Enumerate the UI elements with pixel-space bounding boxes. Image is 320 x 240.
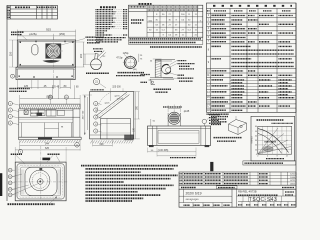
front view xyxy=(16,37,76,80)
rear view xyxy=(148,105,222,158)
svg-text:544: 544 xyxy=(45,143,50,146)
svg-text:200: 200 xyxy=(79,53,83,58)
revision history rows xyxy=(179,172,296,186)
svg-text:925: 925 xyxy=(46,27,51,31)
svg-text:30: 30 xyxy=(255,140,257,142)
svg-text:φ125φ: φ125φ xyxy=(29,32,37,36)
performance chart xyxy=(251,116,295,161)
svg-text:47.5φ: 47.5φ xyxy=(116,57,123,60)
svg-text:125φ: 125φ xyxy=(123,52,129,55)
exhaust adapter section detail xyxy=(141,59,195,92)
chart legend box xyxy=(243,161,296,165)
svg-text:50: 50 xyxy=(255,131,257,133)
svg-text:φ125: φ125 xyxy=(105,103,111,105)
svg-text:400~750: 400~750 xyxy=(83,110,85,119)
svg-text:8: 8 xyxy=(277,156,278,158)
svg-text:10/04: 10/04 xyxy=(290,177,296,179)
svg-text:2020/ 6/19: 2020/ 6/19 xyxy=(186,191,202,195)
bottom view xyxy=(8,143,80,205)
parts list table xyxy=(207,3,297,114)
svg-text:600: 600 xyxy=(100,143,105,146)
svg-text:φ125: φ125 xyxy=(184,110,190,113)
scan artifact bar xyxy=(0,173,2,196)
svg-text:625: 625 xyxy=(45,147,50,150)
svg-text:(250): (250) xyxy=(59,32,65,36)
svg-text:12: 12 xyxy=(286,156,288,158)
svg-text:12/10: 12/10 xyxy=(290,174,296,176)
svg-text:45°: 45° xyxy=(102,56,105,58)
notes xyxy=(81,166,178,201)
svg-text:φ170: φ170 xyxy=(114,95,120,98)
svg-text:4: 4 xyxy=(267,156,268,158)
svg-text:40: 40 xyxy=(255,135,257,137)
front view dimensions xyxy=(8,27,84,89)
specifications list xyxy=(96,7,128,42)
hanging bracket detail xyxy=(83,49,109,88)
left side view xyxy=(8,85,81,162)
svg-text:10: 10 xyxy=(255,149,257,151)
black mark xyxy=(210,162,213,171)
svg-text:0: 0 xyxy=(257,156,258,158)
svg-text:(45): (45) xyxy=(133,69,137,71)
svg-text:RB-REL-4973B: RB-REL-4973B xyxy=(238,189,257,193)
fan leader labels xyxy=(61,37,104,45)
svg-text:125 45: 125 45 xyxy=(52,87,60,89)
svg-text:07/21: 07/21 xyxy=(290,180,296,182)
characteristics table xyxy=(129,4,203,47)
svg-text:60: 60 xyxy=(255,126,257,128)
svg-text:TSQC·S43: TSQC·S43 xyxy=(249,197,277,203)
title block main xyxy=(179,189,296,207)
svg-text:(1.125): (1.125) xyxy=(117,98,124,100)
exhaust port detail xyxy=(116,52,145,76)
svg-text:mmH2O: mmH2O xyxy=(252,136,254,144)
revision table xyxy=(7,6,58,20)
svg-text:20: 20 xyxy=(255,145,257,147)
mounting base detail xyxy=(211,116,247,141)
right side view xyxy=(83,87,140,147)
svg-text:(1.00·605): (1.00·605) xyxy=(158,150,169,152)
sheet frame xyxy=(7,3,296,207)
title block header row xyxy=(179,185,296,189)
svg-text:250: 250 xyxy=(8,51,12,56)
svg-text:325·300: 325·300 xyxy=(112,87,121,89)
svg-text:125: 125 xyxy=(24,85,29,88)
svg-text:****/**/**: ****/**/** xyxy=(186,198,200,202)
